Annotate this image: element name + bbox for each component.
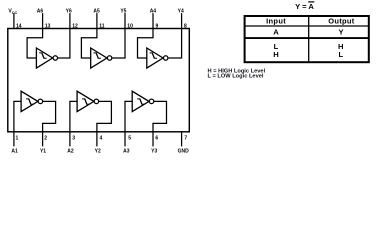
svg-text:A5: A5 bbox=[93, 9, 100, 15]
svg-text:13: 13 bbox=[45, 23, 51, 29]
svg-text:12: 12 bbox=[72, 23, 78, 29]
svg-text:Y4: Y4 bbox=[178, 9, 184, 15]
svg-text:Input: Input bbox=[266, 16, 286, 25]
svg-text:A1: A1 bbox=[11, 149, 18, 155]
svg-text:14: 14 bbox=[16, 23, 22, 29]
svg-text:4: 4 bbox=[100, 135, 103, 141]
svg-text:1: 1 bbox=[16, 135, 19, 141]
svg-text:L: L bbox=[338, 50, 343, 59]
svg-text:Y: Y bbox=[338, 28, 343, 37]
svg-text:A3: A3 bbox=[123, 149, 130, 155]
svg-text:3: 3 bbox=[72, 135, 75, 141]
svg-text:A4: A4 bbox=[150, 9, 157, 15]
svg-text:Y3: Y3 bbox=[151, 149, 157, 155]
svg-text:10: 10 bbox=[127, 23, 133, 29]
svg-text:Output: Output bbox=[328, 16, 355, 25]
svg-text:6: 6 bbox=[155, 135, 158, 141]
svg-text:H: H bbox=[273, 50, 278, 59]
svg-text:Y5: Y5 bbox=[120, 9, 126, 15]
svg-text:Y = A: Y = A bbox=[295, 2, 314, 11]
svg-text:A: A bbox=[273, 28, 279, 37]
svg-text:A6: A6 bbox=[37, 9, 44, 15]
svg-text:5: 5 bbox=[128, 135, 131, 141]
svg-text:Y1: Y1 bbox=[40, 149, 46, 155]
svg-text:Y2: Y2 bbox=[95, 149, 101, 155]
svg-text:Y6: Y6 bbox=[66, 9, 72, 15]
svg-text:L = LOW Logic Level: L = LOW Logic Level bbox=[208, 74, 264, 80]
svg-text:8: 8 bbox=[184, 23, 187, 29]
svg-text:GND: GND bbox=[178, 149, 190, 155]
svg-text:7: 7 bbox=[184, 135, 187, 141]
svg-text:A2: A2 bbox=[67, 149, 74, 155]
svg-text:9: 9 bbox=[156, 23, 159, 29]
svg-text:11: 11 bbox=[99, 23, 105, 29]
svg-text:2: 2 bbox=[44, 135, 47, 141]
